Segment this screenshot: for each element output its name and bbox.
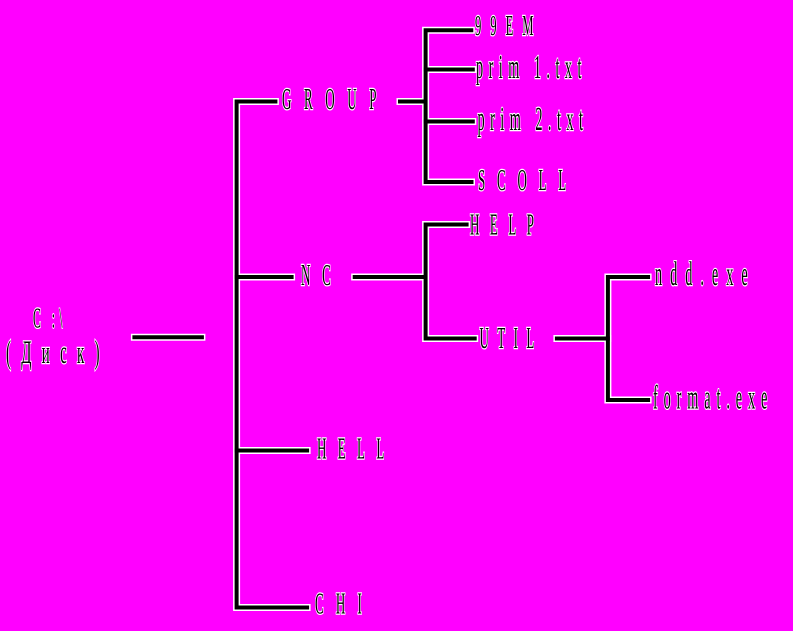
wire: UTIL right stub to children (555, 337, 610, 341)
wire: prim1 stub (424, 68, 475, 72)
wire: prim2 stub (424, 120, 475, 124)
wire: GROUP right stub to children (398, 100, 427, 104)
wire: HELL branch stub (235, 449, 309, 453)
wire: NC branch left stub (235, 275, 294, 279)
wire: NC children rail with HELP and UTIL stubs (426, 225, 477, 339)
svg-text:C:\: C:\ (33, 303, 73, 334)
svg-text:HELL: HELL (317, 432, 396, 466)
svg-text:prim 2.txt: prim 2.txt (478, 100, 589, 138)
svg-text:NC: NC (301, 259, 343, 293)
wire: C:\ root stub (132, 335, 204, 339)
svg-text:format.exe: format.exe (653, 379, 773, 417)
wire: UTIL children rail with ndd and format stubs (608, 277, 650, 400)
svg-text:HELP: HELP (470, 208, 545, 242)
svg-text:CHI: CHI (315, 587, 374, 621)
svg-text:SCOLL: SCOLL (478, 164, 578, 198)
svg-text:UTIL: UTIL (480, 322, 543, 356)
wire: NC right stub to children (353, 275, 428, 279)
wire: GROUP children rail with 99EM and SCOLL stubs (426, 30, 474, 182)
svg-text:ndd.exe: ndd.exe (655, 255, 756, 293)
white halos under wires (131, 30, 652, 607)
svg-text:GROUP: GROUP (282, 83, 389, 117)
wire: main trunk with GROUP top stub and CHI bottom stub (237, 102, 310, 608)
svg-text:(Диск): (Диск) (6, 333, 110, 370)
svg-text:prim 1.txt: prim 1.txt (476, 48, 587, 86)
svg-text:99EM: 99EM (475, 10, 542, 41)
